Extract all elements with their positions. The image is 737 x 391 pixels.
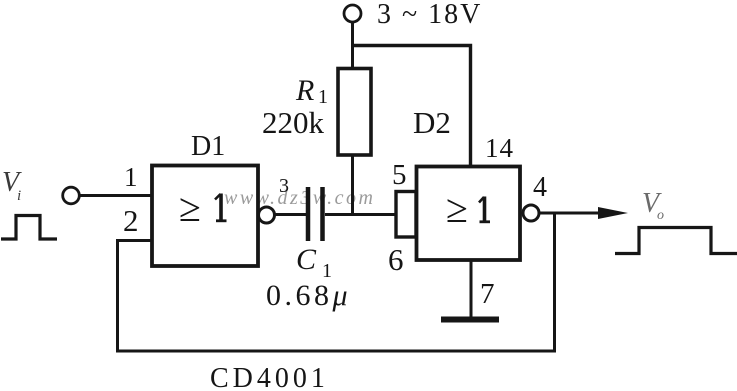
wire: feedback right vertical xyxy=(553,213,556,351)
wire: capacitor to D2 input xyxy=(325,213,396,216)
wire: resistor bottom lead xyxy=(351,155,354,215)
resistor R1 xyxy=(338,69,371,156)
svg-text:R: R xyxy=(295,74,314,107)
svg-text:4: 4 xyxy=(533,172,547,203)
gate D1 xyxy=(152,166,258,267)
svg-text:3 ~ 18V: 3 ~ 18V xyxy=(377,0,482,30)
wire: bubble to capacitor xyxy=(274,213,306,216)
svg-text:o: o xyxy=(657,208,664,223)
svg-text:C: C xyxy=(296,243,317,276)
wire: output with arrow xyxy=(540,212,612,215)
capacitor C1 xyxy=(306,187,311,241)
gate D2 output bubble xyxy=(523,205,539,221)
svg-text:220k: 220k xyxy=(262,105,325,140)
svg-text:≥: ≥ xyxy=(179,185,201,230)
svg-text:D2: D2 xyxy=(413,105,451,140)
svg-text:i: i xyxy=(17,188,21,204)
svg-text:≥: ≥ xyxy=(446,186,468,231)
svg-text:5: 5 xyxy=(392,159,407,191)
input terminal xyxy=(63,187,80,204)
wire: top branch to pin 14 xyxy=(351,46,471,167)
ground xyxy=(441,317,499,323)
wire: feedback bottom xyxy=(116,350,556,353)
svg-text:2: 2 xyxy=(123,203,139,238)
gate D2 input bracket (pins 5,6 tied) xyxy=(396,192,416,238)
svg-text:D1: D1 xyxy=(191,131,225,162)
output waveform xyxy=(615,228,737,254)
input waveform xyxy=(1,216,57,240)
wire: pin 2 xyxy=(118,241,153,352)
svg-text:7: 7 xyxy=(480,278,495,310)
svg-text:0.68μ: 0.68μ xyxy=(266,279,351,312)
power terminal xyxy=(344,5,361,22)
svg-text:3: 3 xyxy=(279,175,289,197)
svg-text:1: 1 xyxy=(124,162,138,192)
wire: pin 7 xyxy=(470,260,473,318)
gate D2 xyxy=(417,167,521,261)
gate D1 output bubble xyxy=(259,207,275,223)
wire: pin 1 xyxy=(80,194,153,197)
wire: supply vertical xyxy=(351,22,354,70)
svg-text:14: 14 xyxy=(485,133,514,163)
svg-text:CD4001: CD4001 xyxy=(210,363,329,391)
svg-text:6: 6 xyxy=(388,242,404,277)
